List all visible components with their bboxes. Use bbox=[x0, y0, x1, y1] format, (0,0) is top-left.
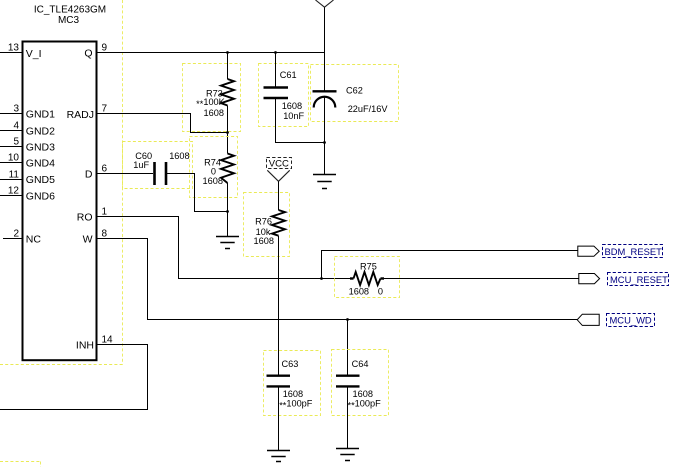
ground under C62 bbox=[313, 175, 336, 189]
svg-text:V_I: V_I bbox=[26, 48, 42, 60]
ground under C63 bbox=[267, 451, 290, 462]
svg-text:12: 12 bbox=[8, 185, 20, 196]
svg-text:MCU_RESET: MCU_RESET bbox=[610, 274, 668, 285]
pin 5 GND3 wire bbox=[0, 136, 23, 147]
junction D-net / R74 bottom bbox=[226, 210, 229, 213]
resistor R74 bbox=[190, 137, 238, 198]
svg-text:BDM_RESET: BDM_RESET bbox=[605, 246, 663, 257]
svg-text:C63: C63 bbox=[282, 359, 299, 369]
svg-text:W: W bbox=[83, 234, 93, 246]
svg-text:GND5: GND5 bbox=[26, 174, 55, 186]
svg-text:1608: 1608 bbox=[353, 389, 373, 399]
wire C61 bottom to C62 vertical bbox=[276, 98, 325, 143]
junction W net / C64 bbox=[346, 318, 349, 321]
pin 3 GND1 wire bbox=[0, 103, 23, 114]
svg-text:MCU_WD: MCU_WD bbox=[610, 315, 652, 326]
svg-text:0: 0 bbox=[211, 167, 216, 177]
svg-text:RADJ: RADJ bbox=[67, 109, 94, 121]
port flag MCU_WD bbox=[577, 314, 654, 327]
pin 13 V_I wire bbox=[0, 42, 23, 53]
svg-text:1608: 1608 bbox=[283, 389, 303, 399]
resistor R75 bbox=[335, 257, 400, 298]
svg-text:INH: INH bbox=[76, 340, 94, 352]
pin 8 W wire (watchdog net) bbox=[97, 228, 578, 319]
svg-text:NC: NC bbox=[26, 234, 42, 246]
svg-text:1uF: 1uF bbox=[133, 160, 149, 170]
svg-text:IC_TLE4263GM: IC_TLE4263GM bbox=[34, 4, 106, 15]
svg-text:22uF/16V: 22uF/16V bbox=[348, 104, 389, 114]
port flag BDM_RESET bbox=[578, 245, 663, 258]
junction C61/C62 net bbox=[323, 141, 326, 144]
capacitor C61 bbox=[259, 53, 309, 127]
ground under R74 bbox=[216, 237, 239, 249]
svg-text:1608: 1608 bbox=[349, 287, 369, 297]
junction RADJ/R73/R74 bbox=[226, 131, 229, 134]
wire R75 to MCU_RESET flag bbox=[384, 278, 579, 280]
svg-text:R76: R76 bbox=[255, 216, 272, 226]
wire C62 to ground bbox=[324, 97, 326, 175]
svg-text:13: 13 bbox=[8, 42, 20, 53]
svg-text:1608: 1608 bbox=[204, 108, 224, 118]
bottom-left sheet yellow dashed corner bbox=[0, 462, 41, 467]
wire power vertical down to C62 bbox=[324, 7, 326, 91]
pin 10 GND4 wire bbox=[0, 152, 23, 163]
power symbol VCC bbox=[267, 158, 292, 182]
svg-text:1608: 1608 bbox=[169, 151, 189, 161]
svg-text:14: 14 bbox=[102, 334, 114, 345]
svg-text:2: 2 bbox=[13, 228, 19, 239]
wire R74 bottom to ground bbox=[227, 183, 229, 237]
pin 6 D wire bbox=[97, 163, 154, 174]
resistor R73 bbox=[183, 53, 241, 132]
svg-text:11: 11 bbox=[9, 169, 20, 180]
svg-text:9: 9 bbox=[102, 42, 108, 53]
svg-text:GND3: GND3 bbox=[26, 142, 55, 154]
svg-text:C61: C61 bbox=[280, 70, 297, 80]
pin 12 GND6 wire bbox=[0, 185, 23, 196]
junction reset net / BDM branch bbox=[320, 277, 323, 280]
svg-text:GND6: GND6 bbox=[26, 191, 55, 203]
pin 7 RADJ wire bbox=[97, 103, 228, 132]
IC U MC3 yellow highlight box bbox=[0, 0, 123, 365]
svg-text:5: 5 bbox=[13, 136, 19, 147]
wire R76 bottom down through reset net to C63 bbox=[278, 236, 280, 375]
svg-text:8: 8 bbox=[102, 228, 108, 239]
resistor R76 bbox=[244, 193, 290, 257]
svg-text:GND2: GND2 bbox=[26, 126, 55, 138]
svg-text:10: 10 bbox=[8, 152, 20, 163]
svg-text:10nF: 10nF bbox=[283, 111, 304, 121]
pin 2 NC wire bbox=[3, 228, 23, 239]
svg-text:0: 0 bbox=[378, 287, 383, 297]
svg-text:Q: Q bbox=[84, 47, 92, 59]
svg-text:RO: RO bbox=[77, 212, 93, 224]
capacitor C60 bbox=[123, 142, 193, 189]
svg-text:GND4: GND4 bbox=[26, 158, 55, 170]
junction Q/R73 bbox=[226, 51, 229, 54]
wire VCC to R76 bbox=[278, 181, 280, 210]
ground under C64 bbox=[336, 449, 359, 461]
svg-text:MC3: MC3 bbox=[58, 15, 80, 26]
svg-text:7: 7 bbox=[102, 103, 108, 114]
capacitor C64 bbox=[332, 350, 389, 416]
svg-text:3: 3 bbox=[13, 103, 19, 114]
pin 11 GND5 wire bbox=[0, 169, 23, 180]
svg-text:1608: 1608 bbox=[282, 101, 302, 111]
pin 14 INH wire bbox=[0, 334, 148, 409]
svg-text:C62: C62 bbox=[346, 85, 363, 95]
wire R73 to R74 bbox=[227, 106, 229, 154]
power net chevron symbol (top, cut off) bbox=[316, 0, 334, 7]
svg-text:D: D bbox=[85, 169, 93, 181]
svg-text:1608: 1608 bbox=[254, 236, 274, 246]
svg-text:R75: R75 bbox=[360, 261, 377, 271]
wire C63 to ground bbox=[278, 386, 280, 450]
wire C64 to ground bbox=[347, 386, 349, 448]
svg-text:GND1: GND1 bbox=[26, 109, 55, 121]
junction Q/C61 bbox=[274, 51, 277, 54]
wire C60 to D-net jog bbox=[166, 174, 228, 212]
port flag MCU_RESET bbox=[579, 273, 669, 286]
svg-text:1608: 1608 bbox=[203, 176, 223, 186]
svg-text:C64: C64 bbox=[352, 359, 369, 369]
svg-text:1: 1 bbox=[102, 206, 108, 217]
capacitor C62 (polarized electrolytic) bbox=[311, 65, 399, 122]
pin 1 RO wire (reset net) bbox=[97, 206, 351, 278]
svg-text:VCC: VCC bbox=[269, 158, 289, 169]
svg-text:6: 6 bbox=[102, 163, 108, 174]
svg-text:4: 4 bbox=[13, 120, 19, 131]
IC U MC3 body TLE4263GM bbox=[23, 4, 107, 360]
wire C64 branch bbox=[347, 320, 349, 376]
pin 9 Q wire (net Q) bbox=[97, 42, 325, 53]
pin 4 GND2 wire bbox=[0, 120, 23, 131]
wire BDM_RESET branch bbox=[322, 251, 578, 279]
capacitor C63 bbox=[264, 351, 321, 416]
